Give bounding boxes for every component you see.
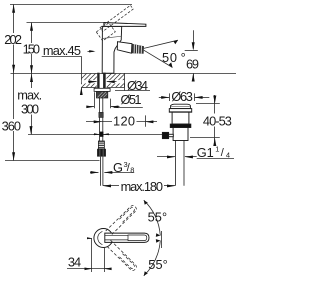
svg-text:55°: 55° xyxy=(148,257,168,272)
svg-text:34: 34 xyxy=(68,254,81,269)
svg-text:G: G xyxy=(113,160,123,175)
svg-text:max.45: max.45 xyxy=(43,43,81,58)
svg-text:°: ° xyxy=(181,50,186,65)
svg-text:max.: max. xyxy=(17,87,42,102)
svg-text:4: 4 xyxy=(226,151,230,160)
svg-text:120: 120 xyxy=(113,114,135,129)
svg-text:50: 50 xyxy=(162,50,177,65)
svg-text:max.180: max.180 xyxy=(121,179,163,194)
svg-text:69: 69 xyxy=(186,56,199,71)
svg-text:360: 360 xyxy=(2,118,21,133)
svg-text:150: 150 xyxy=(23,42,40,57)
svg-text:G1: G1 xyxy=(197,145,214,160)
svg-text:Ø63: Ø63 xyxy=(171,89,193,104)
svg-text:300: 300 xyxy=(21,102,39,117)
svg-text:/: / xyxy=(221,147,225,159)
svg-text:202: 202 xyxy=(4,32,22,47)
svg-text:Ø34: Ø34 xyxy=(127,78,148,93)
svg-text:Ø51: Ø51 xyxy=(121,92,142,107)
svg-text:55°: 55° xyxy=(148,210,168,225)
svg-text:1: 1 xyxy=(215,145,219,154)
svg-text:40-53: 40-53 xyxy=(203,114,232,129)
svg-text:8: 8 xyxy=(130,165,134,174)
